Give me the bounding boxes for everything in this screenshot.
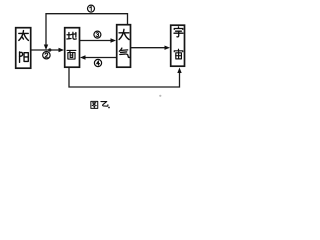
arrowhead left into ground box [80,55,86,59]
arrowhead right into atmosphere box [111,38,117,42]
wire: atmosphere to ground lower line [85,57,117,59]
wire: ground bottom down, right, up into space bottom [69,68,180,88]
arrowhead down at junction of top path [44,45,48,51]
text: ZHOU glyph in space box [174,49,183,59]
text: DA glyph in atmosphere box [119,29,129,39]
text: DI glyph in ground box [67,32,76,39]
text: TAI glyph in sun box [19,31,29,41]
box: atmosphere (daqi) [117,25,131,67]
wire: top path from atmosphere box up-left-down to sun-ground line [46,14,128,47]
stray scan dot [159,95,161,97]
label: circled 3 above upper ground-atmosphere line [94,31,101,38]
text: caption TU glyph (figure) [91,101,98,108]
text: MIAN glyph in ground box [67,50,76,59]
text: caption YI glyph (second) [101,102,108,107]
wire: sun to ground horizontal [31,49,60,51]
wire: ground to atmosphere upper line [80,40,112,42]
label: circled 4 below lower atmosphere-ground line [94,59,101,66]
text: caption period [108,107,110,109]
label: circled 2 below sun-ground line [43,52,50,59]
text: YANG glyph in sun box [20,52,29,62]
wire: atmosphere to space horizontal [131,47,166,49]
arrowhead right into ground box [59,48,65,52]
text: QI glyph in atmosphere box [119,48,129,57]
box: ground (dimian) [65,28,80,67]
text: YU glyph in space box [174,27,183,37]
arrowhead up into space box bottom [177,68,181,74]
arrowhead right into space box [165,46,171,50]
box: sun (taiyang) [16,28,31,68]
node: junction dot on sun-to-ground line [48,48,51,51]
label: circled 1 on top line [88,5,95,12]
box: space (yuzhou) [171,25,185,66]
